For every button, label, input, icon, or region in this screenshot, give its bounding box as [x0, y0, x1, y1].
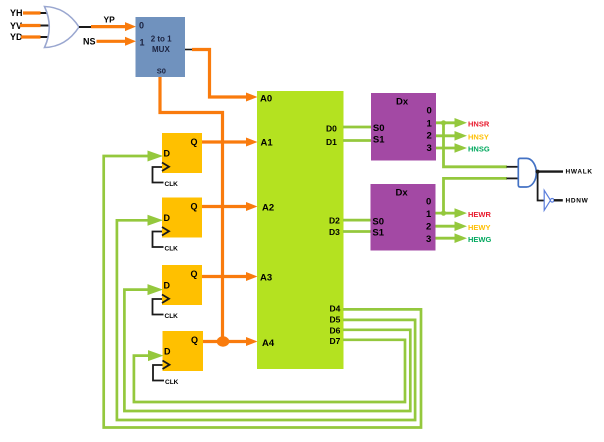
wire inverter to HDNW: [554, 199, 563, 201]
svg-text:HDNW: HDNW: [566, 197, 589, 204]
node YD: [10, 32, 52, 42]
svg-text:A4: A4: [262, 338, 275, 349]
svg-text:A2: A2: [262, 202, 274, 213]
svg-text:S0: S0: [373, 123, 385, 134]
svg-text:CLK: CLK: [165, 181, 179, 188]
wire D3 to U5.S1: [343, 230, 371, 233]
inverter U7: [544, 190, 554, 210]
svg-text:1: 1: [426, 209, 432, 220]
wire U4 out2 to HNSY: [436, 131, 467, 141]
svg-text:HNSG: HNSG: [468, 145, 490, 154]
svg-text:Q: Q: [191, 202, 198, 212]
rom U3 (green block): [257, 91, 344, 369]
svg-text:D: D: [164, 346, 171, 356]
wire FF4 Q to A4: [203, 337, 258, 346]
wire AND output to HWALK: [536, 170, 563, 172]
wire MUX S0 down to junction: [160, 77, 223, 342]
flip-flop FF2: [153, 198, 203, 253]
svg-text:HEWG: HEWG: [468, 235, 491, 244]
svg-text:YP: YP: [104, 15, 116, 25]
wire D5 feedback to FF2.D: [117, 215, 415, 420]
svg-text:S0: S0: [372, 216, 384, 227]
svg-text:0: 0: [139, 21, 144, 31]
wire D2 to U5.S0: [343, 219, 371, 222]
svg-text:D: D: [164, 280, 171, 290]
wire D4 feedback to FF1.D: [104, 151, 421, 428]
svg-text:HNSY: HNSY: [468, 133, 489, 142]
svg-text:CLK: CLK: [165, 379, 179, 386]
svg-text:Q: Q: [191, 269, 198, 279]
wire FF1 Q to A1: [202, 138, 258, 147]
svg-text:0: 0: [426, 196, 431, 207]
wire MUX output to A0: [185, 50, 258, 102]
wire U5 out1 to HEWR: [436, 208, 468, 218]
svg-text:3: 3: [427, 143, 432, 154]
svg-text:2 to 1: 2 to 1: [151, 35, 172, 44]
svg-text:S0: S0: [157, 67, 166, 76]
svg-text:A3: A3: [260, 272, 272, 283]
svg-text:D: D: [164, 148, 171, 158]
and-gate U6: [518, 158, 536, 187]
svg-text:D3: D3: [329, 227, 340, 237]
svg-text:CLK: CLK: [165, 245, 179, 252]
demux U4 (Dx upper): [371, 93, 436, 161]
node YV: [10, 21, 50, 31]
svg-text:3: 3: [426, 234, 431, 245]
wire U4 out1 to HNSR: [436, 118, 467, 128]
wire U5 out2 to HEWY: [436, 221, 468, 231]
node NS: [83, 36, 136, 46]
wire D1 to U4.S1: [343, 139, 371, 142]
svg-text:A1: A1: [261, 138, 274, 149]
svg-text:D5: D5: [330, 315, 341, 325]
svg-text:1: 1: [140, 38, 145, 48]
svg-text:2: 2: [426, 222, 431, 233]
svg-text:D4: D4: [330, 304, 341, 314]
demux U5 (Dx lower): [371, 184, 436, 251]
svg-text:HNSR: HNSR: [468, 120, 490, 129]
flip-flop FF4: [153, 331, 203, 386]
svg-text:Dx: Dx: [396, 187, 409, 198]
flip-flop FF1: [153, 133, 203, 188]
svg-text:HEWR: HEWR: [468, 210, 491, 219]
svg-text:D: D: [164, 213, 171, 223]
svg-text:Q: Q: [191, 137, 198, 147]
wire D0 to U4.S0: [343, 126, 371, 129]
wire OR output to YP: [79, 26, 92, 28]
svg-text:CLK: CLK: [165, 313, 179, 320]
svg-text:1: 1: [427, 119, 433, 130]
svg-text:NS: NS: [83, 36, 96, 46]
svg-text:S1: S1: [372, 228, 384, 239]
svg-text:D0: D0: [326, 124, 337, 134]
svg-text:YH: YH: [10, 8, 23, 18]
flip-flop FF3: [153, 265, 203, 320]
wire D6 feedback to FF3.D: [124, 284, 410, 411]
or-gate U1: [45, 7, 80, 48]
svg-text:D1: D1: [326, 137, 337, 147]
node YH: [10, 8, 53, 18]
svg-text:A0: A0: [260, 93, 272, 104]
svg-text:Dx: Dx: [396, 96, 409, 107]
mux U2 (2 to 1 MUX): [136, 17, 186, 77]
wire FF3 Q to A3: [202, 272, 258, 281]
node YP: [91, 15, 136, 32]
junction S0/A4: [217, 336, 230, 346]
wire U5 out3 to HEWG: [436, 233, 468, 243]
svg-text:S1: S1: [373, 134, 385, 145]
junction AND output: [536, 170, 540, 174]
svg-text:HEWY: HEWY: [468, 223, 491, 232]
wire U4 out1 down to AND gate: [444, 123, 508, 167]
svg-text:HWALK: HWALK: [566, 169, 593, 176]
wire D7 feedback to FF4.D: [134, 340, 405, 402]
wire U5 out1 up to AND gate: [444, 178, 508, 213]
svg-text:Q: Q: [191, 335, 198, 345]
svg-text:MUX: MUX: [152, 45, 170, 54]
svg-text:2: 2: [427, 131, 432, 142]
svg-text:D7: D7: [330, 336, 341, 346]
svg-text:D2: D2: [329, 216, 340, 226]
svg-text:D6: D6: [330, 325, 341, 335]
wire U4 out3 to HNSG: [436, 143, 467, 153]
wire junction down to inverter: [538, 172, 544, 201]
wire FF2 Q to A2: [202, 202, 258, 211]
svg-text:0: 0: [427, 106, 432, 117]
